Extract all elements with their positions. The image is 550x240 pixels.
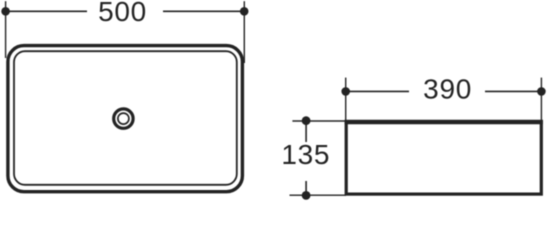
extension line left of 390 dim — [345, 78, 347, 121]
drain outer circle — [114, 109, 133, 128]
basin top view outer rim — [8, 46, 243, 192]
dimension line 390 right segment — [485, 90, 541, 92]
dimension dot 390 left — [341, 87, 350, 96]
svg-text:135: 135 — [281, 139, 330, 170]
extension line right of 390 dim — [540, 78, 542, 121]
basin side view top rim line — [345, 120, 543, 125]
extension line right of 500 dim — [243, 1, 245, 63]
dimension line 500 right segment — [163, 10, 244, 12]
dimension line 500 left segment — [6, 10, 87, 12]
dimension dot 135 top — [302, 116, 311, 125]
dimension dot 500 left — [1, 7, 10, 16]
dimension line 135 lower segment — [305, 181, 307, 195]
dimension dot 390 right — [537, 87, 546, 96]
dimension line 135 upper segment — [305, 121, 307, 142]
svg-text:390: 390 — [423, 74, 472, 105]
basin side view body — [346, 122, 541, 194]
dimension dot 135 bottom — [302, 191, 311, 200]
dimension dot 500 right — [240, 7, 249, 16]
extension line bottom of 135 dim — [290, 194, 347, 196]
svg-text:500: 500 — [98, 0, 147, 27]
drain inner circle — [118, 113, 129, 124]
dimension line 390 left segment — [346, 90, 409, 92]
basin top view inner rim — [14, 51, 237, 185]
extension line left of 500 dim — [5, 1, 7, 58]
extension line top of 135 dim — [292, 120, 346, 122]
